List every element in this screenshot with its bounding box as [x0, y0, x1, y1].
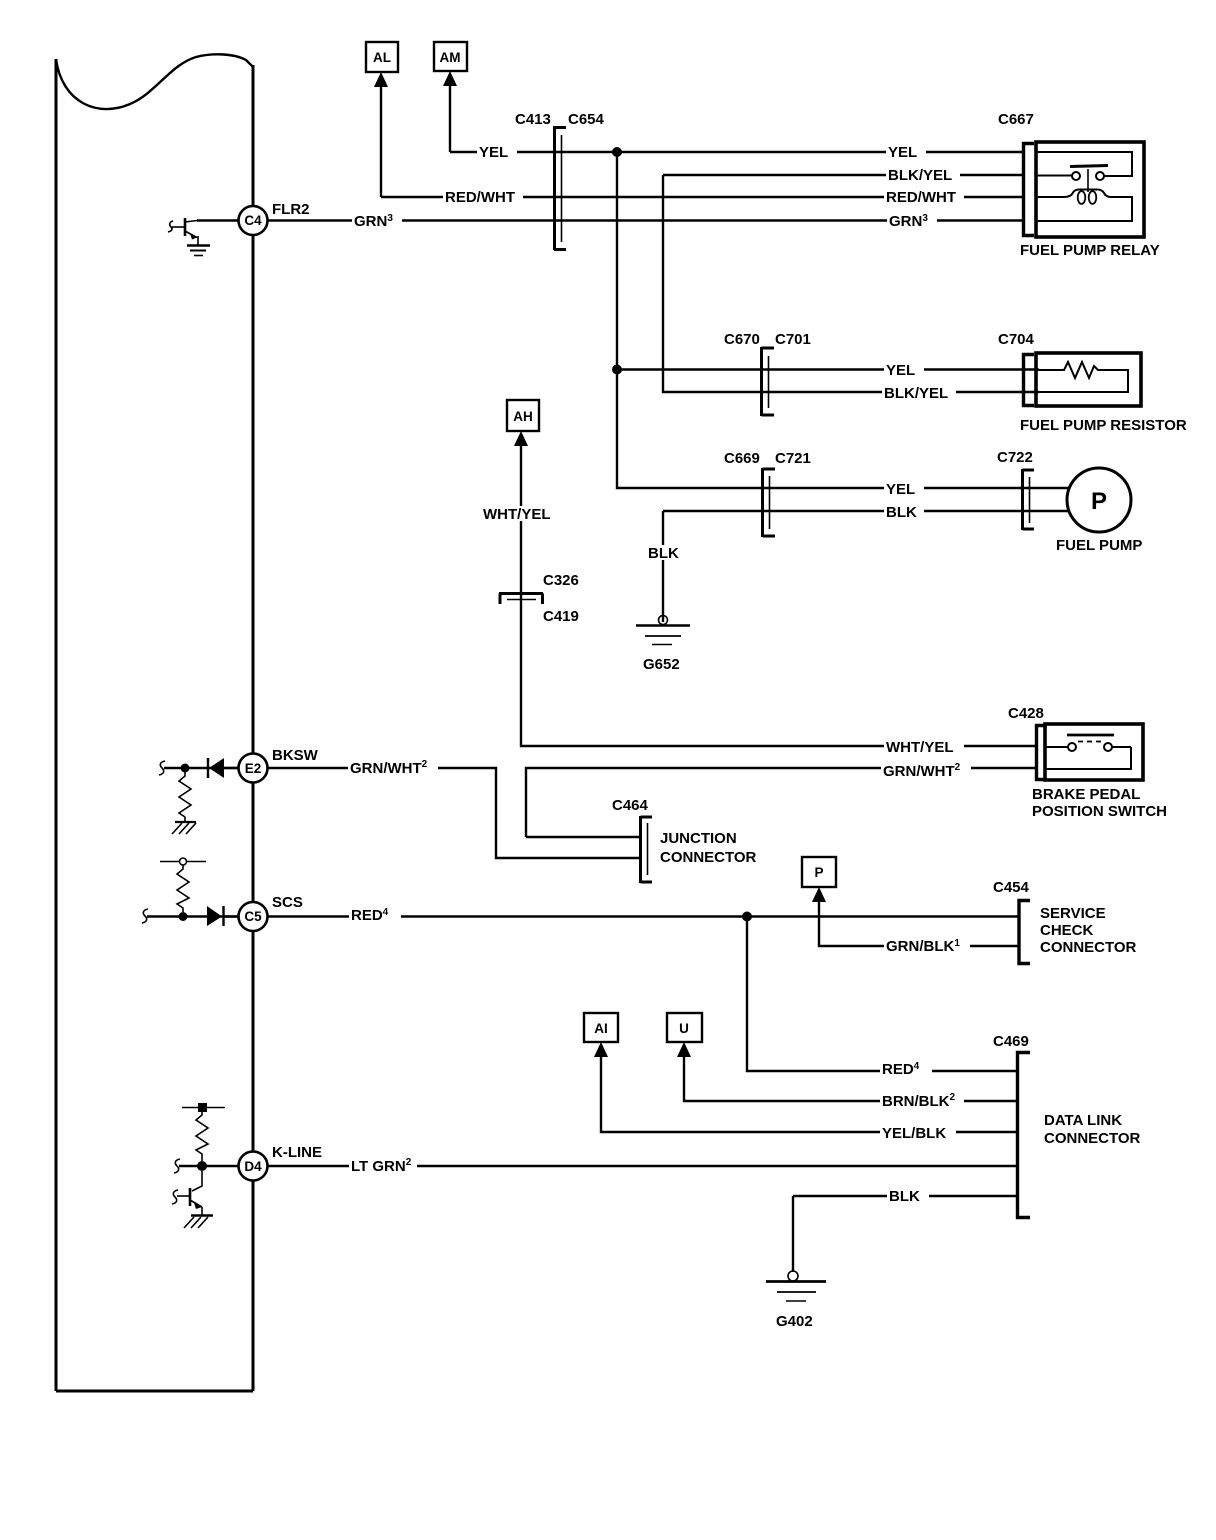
node A junction dot YEL top	[612, 147, 622, 157]
svg-text:C5: C5	[244, 909, 262, 924]
node circle pullup	[160, 858, 206, 865]
svg-text:LT GRN2: LT GRN2	[351, 1157, 412, 1175]
svg-text:YEL: YEL	[888, 144, 917, 161]
svg-text:CHECK: CHECK	[1040, 922, 1094, 939]
arrow to AM	[443, 71, 457, 86]
svg-text:U: U	[679, 1021, 689, 1036]
wire BLK/YEL row1	[663, 174, 1022, 176]
wire RED row	[268, 915, 1018, 917]
svg-text:C722: C722	[997, 449, 1033, 466]
svg-text:GRN/BLK1: GRN/BLK1	[886, 938, 960, 955]
connector C704 bracket	[1024, 355, 1035, 406]
wire GRN row1	[268, 219, 1022, 221]
wire GRN/WHT to brake switch	[526, 768, 1036, 837]
svg-text:CONNECTOR: CONNECTOR	[1044, 1130, 1141, 1147]
svg-text:C701: C701	[775, 331, 811, 348]
ground G402	[766, 1271, 826, 1301]
label JUNCTION CONNECTOR	[660, 830, 757, 866]
terminal C4	[239, 206, 268, 235]
ECM box right edge	[252, 65, 255, 1391]
label BRN/BLK	[880, 1090, 964, 1110]
svg-text:BRAKE PEDAL: BRAKE PEDAL	[1032, 786, 1140, 803]
svg-text:G402: G402	[776, 1313, 813, 1330]
box AL	[366, 42, 398, 72]
svg-text:BLK: BLK	[886, 504, 917, 521]
svg-text:C4: C4	[244, 213, 262, 228]
label RED4 dlc row	[880, 1060, 932, 1078]
svg-text:P: P	[814, 865, 823, 880]
svg-text:WHT/YEL: WHT/YEL	[886, 739, 954, 756]
fuel pump resistor box	[1036, 353, 1141, 406]
terminal E2	[239, 754, 268, 783]
svg-text:C469: C469	[993, 1033, 1029, 1050]
svg-text:C670: C670	[724, 331, 760, 348]
svg-text:C721: C721	[775, 450, 811, 467]
node bar pullup D4	[182, 1103, 225, 1112]
svg-text:YEL: YEL	[479, 144, 508, 161]
svg-text:SERVICE: SERVICE	[1040, 905, 1106, 922]
svg-text:AM: AM	[440, 50, 461, 65]
label SERVICE CHECK CONNECTOR	[1040, 905, 1137, 956]
label BLK/YEL relay row	[886, 167, 960, 184]
wire RED/WHT row1	[381, 196, 1022, 198]
label GRN/WHT brake row	[881, 760, 971, 780]
terminal D4	[239, 1152, 268, 1181]
label LT GRN	[349, 1156, 417, 1175]
wire C464 upper pin	[526, 836, 640, 838]
terminal C5	[239, 902, 268, 931]
svg-text:C428: C428	[1008, 705, 1044, 722]
svg-text:FUEL PUMP RESISTOR: FUEL PUMP RESISTOR	[1020, 417, 1187, 434]
svg-text:FUEL PUMP: FUEL PUMP	[1056, 537, 1142, 554]
resistor R2	[177, 865, 189, 912]
svg-text:C454: C454	[993, 879, 1030, 896]
arrow to P	[812, 887, 826, 902]
connector C428 bracket	[1037, 726, 1048, 780]
transistor Q1	[168, 218, 197, 240]
wire U riser BRN/BLK	[684, 1055, 1016, 1101]
svg-text:WHT/YEL: WHT/YEL	[483, 506, 551, 523]
label BLK/YEL resistor row	[882, 385, 956, 402]
ECM box wavy top edge	[56, 54, 253, 109]
relay internal coil circuit	[1037, 190, 1132, 222]
label RED4	[349, 906, 401, 924]
label WHT/YEL vertical	[481, 506, 561, 523]
wire AL riser RED/WHT	[380, 85, 382, 197]
box U	[667, 1013, 702, 1042]
wire BLK pump row	[663, 510, 1069, 512]
node dot E2	[181, 764, 190, 773]
svg-text:AL: AL	[373, 50, 391, 65]
connector C669/C721	[763, 468, 776, 537]
svg-text:C413: C413	[515, 111, 551, 128]
svg-text:SCS: SCS	[272, 894, 303, 911]
wire YEL resistor row	[617, 368, 1039, 370]
resistor R3	[196, 1111, 208, 1161]
label GRN relay row	[887, 212, 937, 230]
label YEL resistor row	[884, 362, 924, 379]
wire GRN/WHT from E2	[268, 768, 640, 858]
hook D4 left	[174, 1159, 180, 1173]
svg-text:BLK: BLK	[889, 1188, 920, 1205]
node B junction dot YEL mid	[612, 365, 622, 375]
diode D2	[207, 906, 238, 926]
ground at R1	[172, 822, 196, 834]
label BLK on G652 drop	[646, 545, 688, 562]
box AI	[584, 1013, 618, 1042]
wire AI riser YEL/BLK	[601, 1055, 1016, 1132]
svg-text:RED/WHT: RED/WHT	[445, 189, 515, 206]
wire E2 row GRN/WHT	[164, 767, 238, 769]
wire C4 to transistor	[197, 219, 238, 221]
ground at Q1	[187, 236, 210, 256]
connector C667 bracket	[1024, 144, 1035, 236]
label RED/WHT relay row	[884, 189, 964, 206]
label GRN/WHT E2 row	[348, 757, 438, 777]
svg-text:C669: C669	[724, 450, 760, 467]
label BLK pump row	[884, 504, 924, 521]
label YEL/BLK	[880, 1125, 956, 1142]
ECM box bottom edge	[56, 1390, 253, 1393]
ground G652	[636, 616, 690, 645]
hook C5 left	[142, 909, 148, 923]
fuel pump motor	[1067, 468, 1131, 532]
svg-text:D4: D4	[244, 1159, 262, 1174]
svg-text:BLK/YEL: BLK/YEL	[884, 385, 948, 402]
box P	[802, 857, 836, 887]
brake pedal position switch box	[1045, 724, 1143, 780]
resistor R1	[179, 772, 191, 821]
label YEL relay row	[886, 144, 926, 161]
svg-text:C654: C654	[568, 111, 605, 128]
connector C670/C701	[762, 347, 775, 416]
svg-text:CONNECTOR: CONNECTOR	[660, 849, 757, 866]
connector C469 bracket	[1018, 1053, 1031, 1218]
wire AM riser YEL	[449, 84, 451, 152]
brake switch internals	[1046, 735, 1131, 769]
connector C454 bracket	[1019, 901, 1030, 964]
connector C464	[641, 816, 653, 883]
label YEL row1 left	[477, 144, 517, 161]
wire YEL row1	[450, 151, 1022, 153]
svg-text:BRN/BLK2: BRN/BLK2	[882, 1092, 956, 1110]
label WHT/YEL brake row	[884, 739, 964, 756]
wire riser BLK/YEL	[663, 175, 1039, 392]
box AM	[434, 42, 467, 71]
svg-text:C326: C326	[543, 572, 579, 589]
svg-text:FLR2: FLR2	[272, 201, 310, 218]
connector C326/C419	[499, 594, 543, 605]
ground at Q2	[184, 1216, 213, 1229]
svg-text:BLK: BLK	[648, 545, 679, 562]
wire WHT/YEL vertical	[521, 444, 1036, 746]
svg-text:FUEL PUMP RELAY: FUEL PUMP RELAY	[1020, 242, 1160, 259]
wire LT GRN row	[268, 1165, 1016, 1167]
svg-text:BKSW: BKSW	[272, 747, 319, 764]
node dot C5	[179, 912, 188, 921]
svg-text:POSITION SWITCH: POSITION SWITCH	[1032, 803, 1167, 820]
label RED/WHT row1 left	[443, 189, 523, 206]
svg-text:K-LINE: K-LINE	[272, 1144, 322, 1161]
svg-text:AH: AH	[513, 409, 533, 424]
wire RED riser to DLC	[747, 917, 1016, 1072]
svg-text:C704: C704	[998, 331, 1035, 348]
wire C5 row left	[147, 915, 238, 917]
wire BLK dlc row	[793, 1195, 1016, 1197]
wire riser from YEL junction	[617, 152, 1069, 488]
arrow to AH	[514, 431, 528, 446]
connector C413/C654	[554, 126, 566, 250]
svg-text:DATA LINK: DATA LINK	[1044, 1112, 1122, 1129]
ECM box left edge	[55, 59, 58, 1391]
label GRN/BLK	[884, 937, 970, 955]
resistor element inside	[1037, 362, 1128, 392]
svg-text:RED/WHT: RED/WHT	[886, 189, 956, 206]
transistor Q2	[172, 1171, 202, 1215]
svg-text:CONNECTOR: CONNECTOR	[1040, 939, 1137, 956]
fuel pump relay box	[1036, 142, 1144, 237]
svg-text:YEL: YEL	[886, 481, 915, 498]
arrow to AL	[374, 72, 388, 87]
arrow to AI	[594, 1042, 608, 1057]
svg-text:C464: C464	[612, 797, 649, 814]
node dot RED junction	[742, 912, 752, 922]
wire BLK drop to G402	[792, 1196, 794, 1272]
connector C722	[1023, 469, 1035, 530]
wire BLK drop to G652	[662, 511, 664, 622]
svg-text:BLK/YEL: BLK/YEL	[888, 167, 952, 184]
label DATA LINK CONNECTOR	[1044, 1112, 1141, 1147]
wire P riser GRN/BLK	[819, 900, 1018, 946]
svg-text:GRN/WHT2: GRN/WHT2	[883, 762, 961, 780]
arrow to U	[677, 1042, 691, 1057]
svg-text:C419: C419	[543, 608, 579, 625]
svg-text:E2: E2	[245, 761, 262, 776]
svg-text:YEL/BLK: YEL/BLK	[882, 1125, 946, 1142]
label GRN row1 left	[352, 212, 402, 230]
svg-text:YEL: YEL	[886, 362, 915, 379]
wire D4 row left	[179, 1165, 238, 1167]
svg-text:AI: AI	[594, 1021, 608, 1036]
svg-text:G652: G652	[643, 656, 680, 673]
svg-text:JUNCTION: JUNCTION	[660, 830, 737, 847]
node dot D4	[197, 1161, 207, 1171]
svg-text:C667: C667	[998, 111, 1034, 128]
hook E2 left	[159, 761, 165, 775]
relay internal switch circuit	[1037, 152, 1132, 192]
label YEL pump row	[884, 481, 924, 498]
box AH	[507, 400, 539, 431]
svg-text:P: P	[1091, 488, 1107, 515]
label BLK dlc	[887, 1188, 929, 1205]
svg-text:GRN/WHT2: GRN/WHT2	[350, 759, 428, 777]
diode D1	[208, 758, 238, 778]
